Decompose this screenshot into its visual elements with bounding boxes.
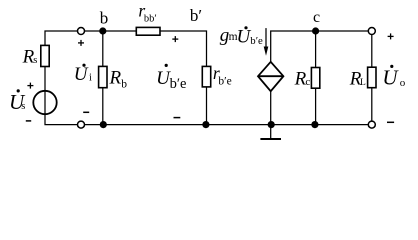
- terminal input top (open circle): [78, 28, 85, 35]
- label Us with dot: [9, 89, 26, 114]
- terminal output bottom (open circle): [368, 121, 375, 128]
- label Ub'e with dot: [156, 64, 186, 92]
- wire top from input terminal through node b to r_bb': [85, 30, 137, 32]
- label gmUb'e with dot: [220, 25, 263, 47]
- resistor r_bb' (horizontal): [136, 27, 160, 35]
- wire output terminal down to RL: [371, 35, 373, 67]
- label node b: [100, 9, 109, 28]
- wire from diamond bottom to ground node: [270, 91, 272, 124]
- junction dot bottom under r_b'e: [202, 121, 209, 128]
- wire from r_b'e down to bottom rail: [206, 87, 208, 125]
- wire RL down to bottom output terminal: [371, 88, 373, 121]
- resistor Rs: [41, 45, 49, 66]
- resistor RL: [368, 67, 376, 88]
- label node c: [313, 9, 320, 26]
- label Rs: [22, 46, 38, 67]
- resistor r_b'e: [202, 66, 210, 87]
- label Rc: [294, 69, 311, 90]
- plus sign of Uo: [388, 33, 394, 39]
- current direction arrow of controlled source: [264, 28, 269, 56]
- wire top-left from corner to input terminal: [45, 31, 77, 45]
- wire top-right rail from current-source corner through node c to output terminal: [271, 31, 368, 62]
- resistor Rc: [311, 68, 319, 89]
- label Uo with dot: [382, 65, 405, 90]
- label Ui with dot: [74, 64, 92, 86]
- wire top from r_bb' to b' corner, down to r_b'e: [160, 31, 207, 67]
- label r_b'e: [213, 63, 232, 88]
- wire node c down to Rc: [315, 31, 317, 68]
- svg-text:Us: Us: [9, 90, 26, 114]
- ground: [260, 125, 281, 139]
- junction dot bottom under Rb: [100, 121, 107, 128]
- label RL: [349, 69, 366, 90]
- resistor Rb: [99, 66, 107, 87]
- node b junction dot: [99, 27, 106, 34]
- label node b': [190, 6, 202, 25]
- svg-text:b′: b′: [190, 6, 202, 25]
- junction dot bottom under Rc: [311, 121, 318, 128]
- controlled current source gmUb'e (diamond): [258, 62, 283, 91]
- plus sign of Us: [27, 83, 33, 89]
- terminal input bottom (open circle): [78, 121, 85, 128]
- plus sign of Ub'e: [172, 36, 178, 42]
- minus sign of Ui: [83, 111, 89, 113]
- wire Rb down to bottom rail: [102, 88, 104, 125]
- plus sign of Ui: [78, 40, 84, 46]
- junction dot bottom at ground: [268, 121, 275, 128]
- wire Rc down to bottom rail: [315, 88, 317, 124]
- svg-text:c: c: [313, 9, 320, 26]
- node c junction dot: [312, 27, 319, 34]
- voltage source Us (circle): [33, 91, 56, 114]
- svg-text:b: b: [100, 9, 109, 28]
- minus sign of Us: [26, 120, 31, 122]
- wire left rail from Rs down through source to bottom-left corner: [45, 67, 77, 125]
- minus sign of Ub'e: [174, 117, 181, 119]
- minus sign of Uo: [387, 121, 394, 123]
- label Rb: [109, 68, 128, 91]
- terminal output top (open circle): [368, 28, 375, 35]
- label r_bb': [138, 1, 156, 25]
- wire bottom rail from input terminal to output terminal: [85, 124, 368, 126]
- wire node b down to Rb: [102, 31, 104, 67]
